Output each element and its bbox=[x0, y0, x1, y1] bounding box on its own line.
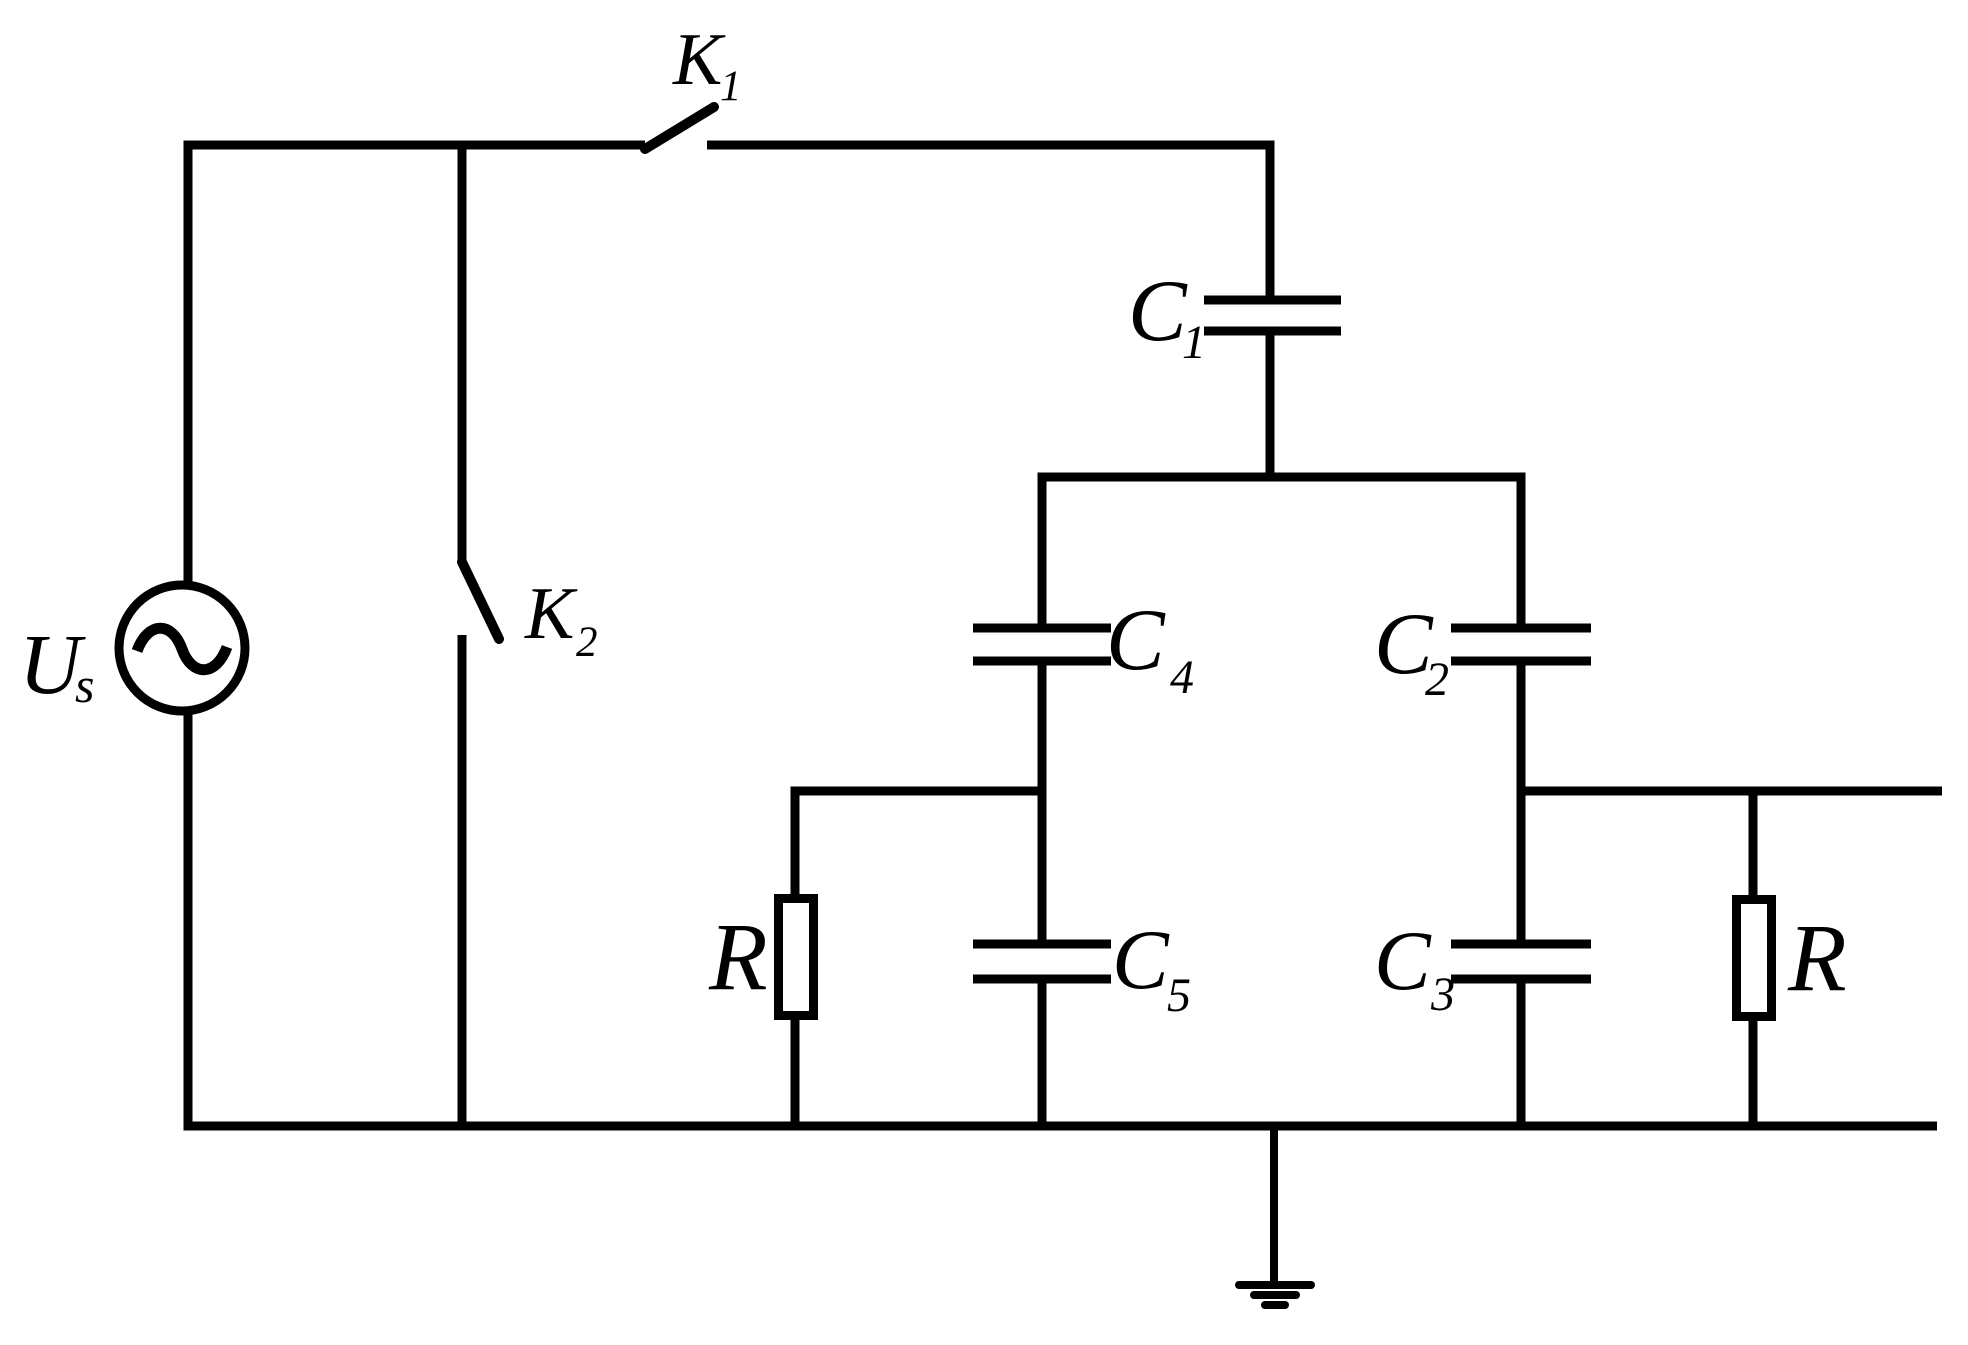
wire: C2 bottom to C3 top (passes output node) bbox=[1517, 661, 1526, 944]
label C1 bbox=[1128, 263, 1206, 369]
source U_s circle bbox=[119, 585, 245, 711]
ground bar 3 bbox=[1265, 1301, 1285, 1309]
wire: K2 branch lower bbox=[458, 635, 467, 1126]
capacitor C3 bbox=[1451, 944, 1591, 979]
ground bar 2 bbox=[1254, 1291, 1296, 1299]
svg-text:2: 2 bbox=[576, 619, 598, 666]
wire: junction row connecting C4 and C2 branches bbox=[1042, 477, 1521, 628]
svg-text:1: 1 bbox=[720, 63, 742, 110]
svg-text:5: 5 bbox=[1167, 969, 1191, 1022]
wire: C4 bottom to C5 top (passes node A) bbox=[1038, 661, 1047, 944]
wire: C5 bottom to bottom rail bbox=[1038, 979, 1047, 1126]
ground stub bbox=[1270, 1126, 1278, 1285]
label C2 bbox=[1374, 596, 1449, 706]
label K2 bbox=[524, 573, 598, 666]
label C5 bbox=[1112, 913, 1191, 1022]
ground bar 1 bbox=[1239, 1281, 1311, 1289]
wire: K2 branch upper bbox=[458, 145, 467, 561]
wire: top wire right segment + drop to C1 bbox=[707, 145, 1270, 300]
svg-text:K: K bbox=[524, 573, 578, 655]
svg-text:R: R bbox=[1787, 904, 1847, 1011]
svg-text:C: C bbox=[1112, 913, 1170, 1007]
label C4 bbox=[1106, 592, 1194, 704]
wire: C3 bottom to bottom rail bbox=[1517, 979, 1526, 1126]
wire: C1 to junction node bbox=[1266, 331, 1275, 477]
wire: left R bottom to bottom rail bbox=[791, 1020, 800, 1126]
wire: output node horizontal to right edge bbox=[1521, 787, 1942, 796]
capacitor C5 bbox=[973, 944, 1111, 979]
capacitor C1 bbox=[1204, 300, 1341, 331]
label K1 bbox=[672, 19, 742, 110]
svg-text:3: 3 bbox=[1430, 968, 1455, 1021]
wire: right R bottom to bottom rail bbox=[1749, 1021, 1758, 1126]
label C3 bbox=[1374, 914, 1455, 1021]
svg-text:C: C bbox=[1374, 914, 1432, 1008]
svg-text:s: s bbox=[75, 657, 94, 713]
capacitor C2 bbox=[1451, 628, 1591, 661]
svg-text:1: 1 bbox=[1182, 316, 1206, 369]
wire: output wire down to right R bbox=[1749, 791, 1758, 900]
svg-text:C: C bbox=[1128, 263, 1188, 360]
svg-text:R: R bbox=[708, 903, 768, 1010]
svg-text:2: 2 bbox=[1425, 653, 1449, 706]
wire: bottom rail bbox=[188, 710, 1937, 1126]
label Us bbox=[19, 616, 94, 713]
svg-text:K: K bbox=[672, 19, 726, 101]
resistor R (left) bbox=[779, 899, 814, 1016]
wire: left branch vertical + top wire left segment bbox=[188, 145, 645, 585]
svg-text:4: 4 bbox=[1170, 651, 1194, 704]
switch K2 blade bbox=[462, 562, 499, 639]
resistor R (right) bbox=[1737, 900, 1772, 1017]
svg-text:C: C bbox=[1106, 592, 1166, 689]
capacitor C4 bbox=[973, 628, 1111, 661]
switch K1 blade bbox=[645, 107, 714, 149]
source U_s sine wave bbox=[137, 628, 227, 670]
wire: node A horizontal to left R bbox=[795, 791, 1042, 894]
